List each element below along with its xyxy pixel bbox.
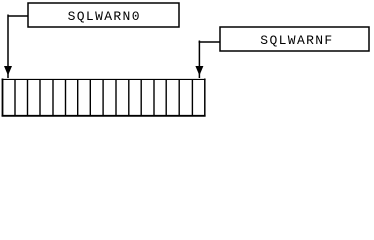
cell divider 8 <box>102 79 104 115</box>
arrowhead left <box>4 66 12 76</box>
cell divider 15 <box>191 79 193 115</box>
cell divider 2 <box>27 79 29 115</box>
cell divider 6 <box>77 79 79 115</box>
wire right arrow vertical <box>198 41 200 79</box>
cell divider 4 <box>52 79 54 115</box>
box SQLWARN0 <box>28 3 179 27</box>
cell divider 13 <box>165 79 167 115</box>
cell divider 5 <box>65 79 67 115</box>
array outer frame right edge <box>204 79 206 117</box>
cell divider 7 <box>89 79 91 115</box>
wire from SQLWARNF box to right arrow (horizontal) <box>199 41 220 43</box>
array outer frame left edge <box>2 79 4 117</box>
wire from SQLWARN0 box to left arrow (horizontal) <box>8 15 28 17</box>
cell divider 12 <box>153 79 155 115</box>
array outer frame bottom edge <box>2 115 206 117</box>
cell divider 1 <box>14 79 16 115</box>
cell divider 11 <box>140 79 142 115</box>
svg-text:SQLWARNF: SQLWARNF <box>260 33 333 48</box>
box SQLWARNF <box>220 27 369 51</box>
cell divider 10 <box>128 79 130 115</box>
cell divider 14 <box>178 79 180 115</box>
svg-text:SQLWARN0: SQLWARN0 <box>68 9 141 24</box>
cell divider 9 <box>115 79 117 115</box>
array of 16 warning-flag cells (outer frame top edge) <box>2 78 206 80</box>
wire left arrow vertical <box>7 15 9 79</box>
arrowhead right <box>195 66 203 76</box>
cell divider 3 <box>39 79 41 115</box>
